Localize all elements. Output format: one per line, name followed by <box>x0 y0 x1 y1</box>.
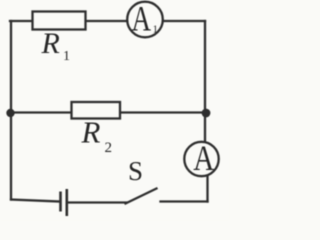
svg-text:R: R <box>41 27 60 60</box>
svg-text:A: A <box>132 0 152 39</box>
svg-text:A: A <box>193 138 214 178</box>
svg-text:1: 1 <box>153 24 159 36</box>
svg-text:R: R <box>81 115 101 150</box>
svg-text:1: 1 <box>63 49 70 64</box>
svg-text:S: S <box>128 156 143 186</box>
svg-text:2: 2 <box>105 140 113 156</box>
